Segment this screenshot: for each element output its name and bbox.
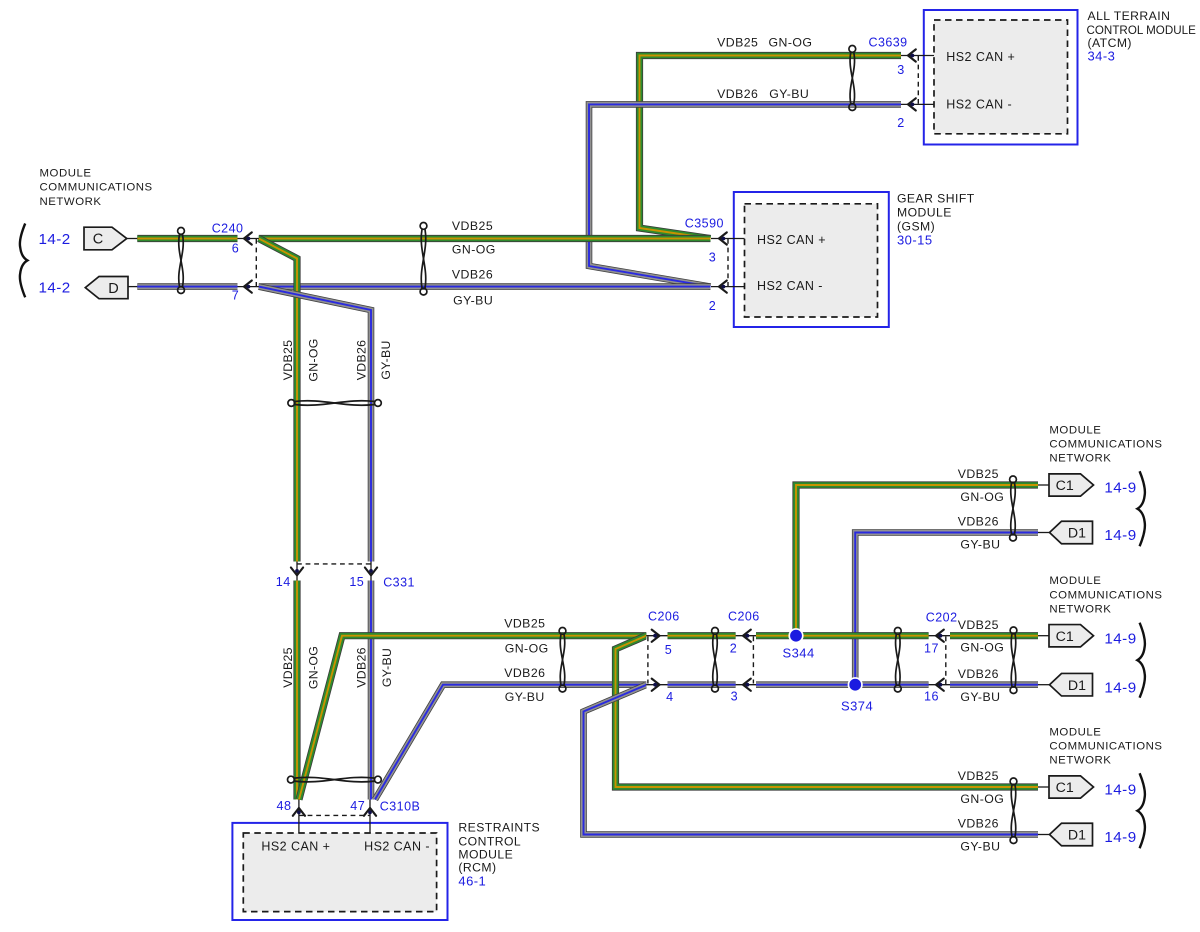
module ATCM box: [924, 10, 1078, 145]
right brace group 3: [1137, 773, 1145, 848]
svg-text:VDB25: VDB25: [958, 618, 999, 632]
twisted-pair symbol middle-right group: [1010, 627, 1017, 693]
pin line GSM pin 2: [711, 286, 745, 288]
svg-text:C1: C1: [1056, 629, 1074, 645]
svg-text:MODULE: MODULE: [1049, 425, 1101, 437]
module RCM box: [232, 823, 447, 920]
svg-text:47: 47: [350, 799, 365, 813]
pin line C331 pin 15: [370, 562, 372, 581]
svg-text:VDB26: VDB26: [958, 817, 999, 831]
wire VDB26 GY-BU: ATCM pin 2 to GSM pin 2 (down x589): [589, 104, 901, 286]
svg-text:14-9: 14-9: [1104, 480, 1136, 497]
pin line D1 group 2: [1038, 684, 1050, 686]
twisted-pair symbol on vertical pair lower: [288, 776, 382, 783]
connector D pentagon: [85, 277, 128, 299]
wire VDB25 GN-OG: C240 branch down to C331 pin 14: [259, 239, 297, 562]
svg-text:GN-OG: GN-OG: [505, 641, 549, 655]
svg-text:C206: C206: [648, 610, 680, 624]
svg-text:4: 4: [666, 690, 673, 704]
left brace: [20, 224, 28, 298]
svg-text:GN-OG: GN-OG: [307, 338, 321, 381]
svg-text:D: D: [108, 281, 118, 297]
connector C206 left dashed line: [647, 637, 649, 684]
svg-text:C202: C202: [926, 611, 958, 625]
svg-text:COMMUNICATIONS: COMMUNICATIONS: [1049, 741, 1162, 753]
pin line connector D: [128, 286, 137, 288]
svg-text:VDB25: VDB25: [452, 219, 493, 233]
twisted-pair symbol left of C240: [178, 228, 185, 294]
connector C331 dashed line: [297, 563, 371, 565]
svg-text:HS2 CAN +: HS2 CAN +: [946, 50, 1015, 64]
arrow C331 pin 14: [291, 568, 303, 576]
svg-text:14-9: 14-9: [1104, 829, 1136, 846]
svg-text:GY-BU: GY-BU: [453, 293, 493, 307]
pin line D1 group 3: [1038, 834, 1050, 836]
connector D1 pentagon group 2: [1050, 673, 1093, 696]
svg-text:MODULE: MODULE: [1049, 575, 1101, 587]
svg-text:GN-OG: GN-OG: [960, 490, 1004, 504]
wire VDB25 GN-OG: C206 pin 5 left and diagonal down to RCM pin 48: [299, 636, 646, 800]
right brace group 2: [1137, 623, 1145, 698]
svg-text:46-1: 46-1: [458, 873, 486, 888]
twisted-pair symbol mid GSM run: [420, 223, 427, 296]
svg-text:14-2: 14-2: [38, 231, 70, 248]
svg-text:GN-OG: GN-OG: [769, 36, 813, 50]
svg-text:VDB25: VDB25: [958, 467, 999, 481]
svg-text:GEAR SHIFT: GEAR SHIFT: [897, 192, 975, 206]
svg-text:D1: D1: [1068, 828, 1086, 844]
connector C3639 dashed line: [917, 56, 919, 104]
connector C206 right dashed line: [752, 637, 754, 684]
svg-text:17: 17: [924, 642, 939, 656]
wire VDB26 GY-BU: C202 pin 16 to middle-right D1: [950, 681, 1038, 688]
arrow C240 pin 7: [244, 281, 252, 293]
svg-text:GN-OG: GN-OG: [960, 792, 1004, 806]
svg-text:HS2 CAN +: HS2 CAN +: [261, 839, 330, 853]
arrow C206 pin 4: [652, 679, 660, 691]
twisted-pair symbol left of C202: [894, 628, 901, 692]
arrow ATCM pin 3: [908, 49, 916, 61]
wire VDB25 GN-OG: C331 pin 14 down to RCM pin 48: [293, 581, 300, 800]
splice S344: [788, 628, 803, 643]
svg-text:C3590: C3590: [685, 216, 724, 230]
svg-text:GY-BU: GY-BU: [379, 340, 393, 379]
svg-text:16: 16: [924, 690, 939, 704]
pin line C240 pin 7: [238, 286, 259, 288]
pin line connector C: [127, 238, 138, 240]
connector C310B dashed line: [299, 814, 370, 816]
svg-text:GN-OG: GN-OG: [960, 641, 1004, 655]
right brace group 1: [1137, 471, 1145, 546]
svg-text:C206: C206: [728, 610, 760, 624]
svg-text:14-9: 14-9: [1104, 630, 1136, 647]
svg-text:NETWORK: NETWORK: [40, 196, 102, 208]
connector C3590 dashed line: [727, 239, 729, 286]
arrow C206 pin 3: [743, 679, 751, 691]
svg-text:S344: S344: [783, 646, 815, 661]
svg-text:VDB25: VDB25: [958, 769, 999, 783]
arrow GSM pin 2: [719, 281, 727, 293]
svg-text:MODULE: MODULE: [897, 206, 952, 220]
connector C1 pentagon group 3: [1049, 776, 1094, 798]
svg-text:2: 2: [709, 299, 716, 313]
svg-text:C310B: C310B: [380, 799, 420, 813]
svg-text:VDB25: VDB25: [717, 36, 758, 50]
svg-text:(RCM): (RCM): [458, 860, 496, 874]
svg-text:14: 14: [276, 575, 291, 589]
svg-text:C3639: C3639: [869, 35, 908, 49]
svg-text:C1: C1: [1056, 780, 1074, 796]
wire VDB25 GN-OG: C206 pin 2 to C202 pin 17 through splice S344: [756, 632, 929, 639]
wire VDB26 GY-BU: splice S374 riser to upper-right D1: [855, 533, 1038, 685]
connector C1 pentagon group 1: [1049, 474, 1094, 496]
svg-text:MODULE: MODULE: [458, 847, 513, 861]
svg-text:GN-OG: GN-OG: [452, 243, 496, 257]
twisted-pair symbol left of C206: [559, 628, 566, 692]
svg-text:S374: S374: [841, 698, 873, 713]
svg-text:14-9: 14-9: [1104, 679, 1136, 696]
pin line GSM pin 3: [711, 238, 745, 240]
svg-text:30-15: 30-15: [897, 232, 933, 247]
pin line C206 pin 5: [646, 635, 667, 637]
twisted-pair symbol on vertical pair upper: [288, 400, 381, 407]
svg-text:3: 3: [897, 63, 904, 77]
svg-text:C: C: [93, 232, 103, 248]
arrow C206 pin 2: [743, 630, 751, 642]
wire VDB26 GY-BU: GSM pin 2 to C240 pin 7: [259, 283, 711, 290]
connector C pentagon: [84, 227, 127, 250]
svg-text:VDB25: VDB25: [281, 647, 295, 687]
svg-text:COMMUNICATIONS: COMMUNICATIONS: [1049, 589, 1162, 601]
twisted-pair symbol upper-right group: [1010, 476, 1017, 541]
pin line ATCM pin 2: [901, 103, 934, 105]
wire VDB25 GN-OG: ATCM pin 3 to GSM pin 3 (down x639): [640, 56, 902, 239]
svg-text:VDB25: VDB25: [504, 616, 545, 630]
arrow ATCM pin 2: [908, 98, 916, 110]
connector C202 dashed line: [945, 637, 947, 685]
arrow C310B pin 47: [364, 808, 376, 816]
pin line C1 group 2: [1038, 635, 1049, 637]
arrow C202 pin 17: [936, 630, 944, 642]
wire VDB26 GY-BU: C206 pin 3 to C202 pin 16 through splice S374: [756, 681, 929, 688]
wire VDB26 GY-BU: C240 pin 7 stub to connector D: [137, 283, 237, 290]
svg-text:VDB26: VDB26: [958, 515, 999, 529]
svg-text:HS2 CAN +: HS2 CAN +: [757, 233, 826, 247]
svg-text:GY-BU: GY-BU: [960, 690, 1000, 704]
wire VDB26 GY-BU: C206 pin 4 left and diagonal down to RCM pin 47: [375, 685, 646, 800]
svg-text:7: 7: [232, 289, 239, 303]
svg-text:VDB26: VDB26: [355, 647, 369, 687]
arrow GSM pin 3: [719, 232, 727, 244]
arrow C202 pin 16: [936, 679, 944, 691]
svg-text:GN-OG: GN-OG: [307, 646, 321, 689]
svg-text:C240: C240: [212, 222, 244, 236]
wire VDB26 GY-BU: branch at C206 pin 4 down to lower-right D1: [584, 685, 1039, 834]
svg-text:NETWORK: NETWORK: [1049, 453, 1111, 465]
wire VDB25 GN-OG: splice S344 riser to upper-right C1: [796, 485, 1038, 636]
svg-text:48: 48: [277, 799, 292, 813]
connector D1 pentagon group 1: [1050, 521, 1093, 544]
svg-text:VDB25: VDB25: [281, 340, 295, 380]
svg-text:GY-BU: GY-BU: [960, 538, 1000, 552]
twisted-pair symbol between C206 pair: [712, 628, 719, 692]
module GSM box: [734, 192, 889, 327]
wire VDB25 GN-OG: GSM pin 3 to C240 pin 6: [259, 235, 711, 242]
pin line C206 pin 4: [646, 684, 667, 686]
twisted-pair symbol lower-right group: [1010, 778, 1017, 843]
svg-text:3: 3: [709, 250, 716, 264]
svg-text:C1: C1: [1056, 478, 1074, 494]
svg-text:MODULE: MODULE: [1049, 727, 1101, 739]
svg-text:COMMUNICATIONS: COMMUNICATIONS: [40, 182, 153, 194]
svg-text:14-2: 14-2: [38, 279, 70, 296]
wire VDB25 GN-OG: branch at C206 pin 5 down to lower-right C1: [616, 636, 1039, 787]
pin line C1 group 3: [1038, 786, 1049, 788]
svg-text:14-9: 14-9: [1104, 527, 1136, 544]
svg-text:D1: D1: [1068, 526, 1086, 542]
splice S374: [848, 677, 863, 692]
wire VDB25 GN-OG: jumper between C206 pair pin 5 to pin 2: [668, 632, 736, 639]
svg-text:GY-BU: GY-BU: [505, 690, 545, 704]
pin line C310B pin 47: [369, 800, 371, 834]
arrow C310B pin 48: [293, 808, 305, 816]
arrow C331 pin 15: [365, 568, 377, 576]
svg-text:15: 15: [349, 575, 364, 589]
svg-text:3: 3: [731, 689, 738, 703]
pin line C331 pin 14: [296, 562, 298, 581]
svg-text:VDB26: VDB26: [355, 340, 369, 380]
svg-text:NETWORK: NETWORK: [1049, 603, 1111, 615]
svg-text:GY-BU: GY-BU: [769, 87, 809, 101]
svg-text:HS2 CAN -: HS2 CAN -: [757, 279, 823, 293]
wire VDB25 GN-OG: C202 pin 17 to middle-right C1: [950, 632, 1038, 639]
svg-text:GY-BU: GY-BU: [380, 648, 394, 687]
arrow C206 pin 5: [652, 630, 660, 642]
twisted-pair symbol near ATCM: [849, 46, 856, 111]
svg-text:COMMUNICATIONS: COMMUNICATIONS: [1049, 439, 1162, 451]
svg-text:VDB26: VDB26: [958, 667, 999, 681]
svg-text:HS2 CAN -: HS2 CAN -: [946, 98, 1012, 112]
svg-text:34-3: 34-3: [1088, 48, 1116, 63]
svg-text:NETWORK: NETWORK: [1049, 755, 1111, 767]
svg-text:GY-BU: GY-BU: [960, 840, 1000, 854]
svg-text:14-9: 14-9: [1104, 782, 1136, 799]
pin line C206 pin 3: [736, 684, 756, 686]
svg-text:RESTRAINTS: RESTRAINTS: [458, 821, 540, 835]
wire VDB26 GY-BU: C240 branch down to C331 pin 15: [259, 287, 371, 562]
svg-text:2: 2: [897, 116, 904, 130]
pin line C310B pin 48: [298, 800, 300, 834]
svg-text:5: 5: [665, 643, 672, 657]
wire VDB25 GN-OG: C240 pin 6 stub to connector C: [137, 235, 237, 242]
connector C240 dashed line: [255, 239, 257, 286]
connector C1 pentagon group 2: [1049, 625, 1094, 647]
pin line C202 pin 16: [929, 684, 950, 686]
svg-text:HS2 CAN -: HS2 CAN -: [364, 839, 430, 853]
wire VDB26 GY-BU: C331 pin 15 down to RCM pin 47: [368, 581, 375, 800]
arrow C240 pin 6: [244, 232, 252, 244]
svg-text:VDB26: VDB26: [452, 268, 493, 282]
svg-text:VDB26: VDB26: [504, 666, 545, 680]
svg-text:CONTROL: CONTROL: [458, 834, 521, 848]
pin line ATCM pin 3: [901, 55, 934, 57]
wire VDB26 GY-BU: jumper between C206 pair pin 4 to pin 3: [668, 681, 736, 688]
pin line C1 group 1: [1038, 484, 1049, 486]
svg-text:6: 6: [232, 241, 239, 255]
svg-text:MODULE: MODULE: [40, 168, 92, 180]
pin line C202 pin 17: [929, 635, 950, 637]
svg-text:D1: D1: [1068, 678, 1086, 694]
pin line C240 pin 6: [238, 238, 259, 240]
svg-text:2: 2: [730, 642, 737, 656]
svg-text:C331: C331: [383, 575, 415, 589]
svg-text:ALL TERRAIN: ALL TERRAIN: [1088, 9, 1171, 23]
svg-text:VDB26: VDB26: [717, 87, 758, 101]
connector D1 pentagon group 3: [1050, 823, 1093, 846]
pin line D1 group 1: [1038, 532, 1050, 534]
pin line C206 pin 2: [736, 635, 756, 637]
